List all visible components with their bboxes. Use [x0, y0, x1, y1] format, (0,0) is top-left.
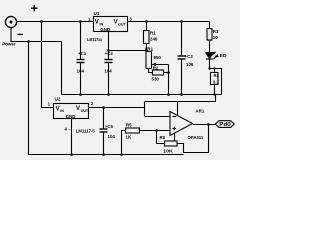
capacitor C2 — [105, 60, 113, 95]
svg-text:3: 3 — [129, 17, 132, 22]
resistor R3 — [207, 22, 212, 53]
resistor R5 — [122, 128, 171, 155]
svg-text:850: 850 — [154, 55, 162, 60]
wire U1 Vout rail — [128, 21, 210, 23]
node plus input junction — [155, 129, 158, 132]
svg-text:V: V — [56, 106, 60, 112]
svg-text:+C5: +C5 — [105, 124, 114, 129]
svg-text:1: 1 — [48, 101, 51, 106]
wire LED cathode to sense branch — [210, 69, 222, 95]
wire vertical to inverting input — [144, 102, 146, 117]
node C3 top — [180, 20, 183, 23]
node C5 top — [102, 106, 105, 109]
wire wiper node to ground rail — [168, 73, 170, 95]
wire opamp supply line — [145, 101, 216, 103]
svg-text:Pd0: Pd0 — [219, 122, 231, 128]
svg-text:R6: R6 — [160, 135, 166, 140]
node LED cathode — [208, 67, 210, 69]
svg-text:104: 104 — [104, 68, 112, 73]
svg-text:LM317xx: LM317xx — [87, 37, 102, 42]
svg-text:+C3: +C3 — [185, 54, 194, 59]
svg-text:104: 104 — [77, 68, 85, 73]
svg-text:106: 106 — [186, 62, 194, 67]
wire U2 5V line — [89, 107, 145, 109]
svg-text:0.1: 0.1 — [213, 80, 219, 85]
node R4 rail junction — [213, 93, 215, 95]
svg-text:OUT: OUT — [81, 109, 89, 113]
node C5 bottom — [102, 153, 105, 156]
svg-text:R4: R4 — [214, 73, 220, 78]
svg-text:+C1: +C1 — [78, 51, 87, 56]
svg-text:LED: LED — [217, 53, 227, 59]
wire jack minus down and right — [11, 28, 62, 42]
svg-text:+C2: +C2 — [105, 51, 114, 56]
svg-text:IN: IN — [60, 109, 64, 113]
wire adj horizontal — [109, 50, 147, 52]
svg-text:R1: R1 — [150, 31, 156, 36]
resistor R6 — [157, 125, 209, 153]
node C2 bottom — [107, 93, 110, 96]
node R2 wiper junction — [167, 71, 170, 74]
potentiometer VR1 — [146, 52, 169, 73]
svg-text:U2: U2 — [55, 97, 61, 102]
svg-text:OUT: OUT — [118, 22, 126, 26]
node U2 gnd bus — [70, 153, 73, 156]
wire opamp Vminus pin — [174, 133, 176, 141]
svg-text:R2: R2 — [153, 65, 159, 70]
svg-text:1K: 1K — [126, 135, 132, 140]
svg-text:240: 240 — [150, 37, 158, 42]
svg-text:R3: R3 — [213, 29, 219, 34]
svg-text:OPA311: OPA311 — [188, 135, 204, 140]
wire plus rail from jack to U1 — [17, 21, 94, 23]
node adj pin junction — [107, 49, 110, 52]
svg-text:U1: U1 — [94, 11, 100, 16]
svg-text:LM1117-5: LM1117-5 — [76, 129, 95, 134]
svg-text:Power: Power — [2, 41, 16, 47]
wire plus rail down to U2 Vin — [42, 22, 54, 108]
wire minus to ground bus — [29, 42, 184, 155]
wire U2 gnd pin to bus — [71, 119, 73, 155]
regulator U1 box — [94, 17, 128, 32]
svg-text:4→: 4→ — [65, 127, 72, 132]
svg-text:530: 530 — [152, 76, 160, 81]
svg-text:104: 104 — [108, 134, 116, 139]
node R1 top junction — [145, 20, 148, 23]
svg-text:GND: GND — [100, 27, 110, 32]
svg-text:AR1: AR1 — [196, 109, 205, 115]
svg-text:R5: R5 — [126, 123, 132, 128]
node ground rail R2 — [167, 93, 170, 96]
capacitor C5 — [100, 108, 108, 155]
wire U1 adj pin down to C2 — [108, 32, 110, 60]
wire minus branch down to mid ground rail — [61, 42, 63, 95]
svg-text:V: V — [76, 106, 80, 112]
ground mid rail — [62, 94, 222, 96]
wire rail jog down to opamp supply line — [215, 95, 217, 102]
svg-text:2: 2 — [91, 101, 94, 106]
resistor R2 — [153, 70, 169, 75]
node C3 bottom — [180, 93, 183, 96]
svg-text:−: − — [17, 29, 23, 41]
node junction on plus rail — [40, 20, 43, 23]
svg-text:V: V — [95, 20, 99, 26]
svg-text:+: + — [31, 1, 39, 16]
node adj R1 junction — [145, 49, 148, 52]
capacitor C1 — [77, 22, 85, 95]
node output junction — [207, 123, 210, 126]
node junction minus wire — [27, 40, 30, 43]
node C1 top — [79, 20, 82, 23]
svg-text:IN: IN — [99, 22, 103, 26]
power jack P1 — [5, 16, 16, 27]
port flag Pd0 — [215, 121, 234, 128]
svg-text:10: 10 — [213, 35, 218, 40]
node R5 bus junction — [120, 153, 123, 156]
wire inverting input — [145, 116, 171, 118]
capacitor C3 — [178, 22, 186, 95]
node R4 top — [213, 67, 215, 69]
LED D1 — [206, 52, 218, 69]
wire opamp Vplus pin — [177, 102, 179, 116]
resistor R4 — [211, 69, 219, 95]
resistor R1 — [144, 22, 150, 52]
regulator U2 box — [54, 104, 89, 119]
svg-text:10K: 10K — [163, 149, 173, 154]
wire VR1 bottom to R2 — [149, 69, 153, 73]
svg-text:GND: GND — [66, 114, 76, 119]
svg-text:VR1: VR1 — [145, 46, 154, 51]
svg-text:V: V — [114, 20, 118, 26]
node C1 bottom — [79, 93, 82, 96]
wire opamp output — [193, 124, 216, 125]
op-amp AR1 — [170, 112, 193, 136]
